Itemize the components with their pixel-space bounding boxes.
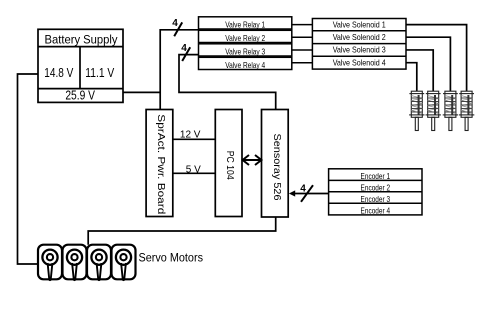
valve relay K2 <box>199 30 292 42</box>
double arrow PC104 to Sensoray <box>243 155 262 165</box>
svg-text:4: 4 <box>172 18 178 29</box>
wire 5V <box>173 172 216 174</box>
wire relay4 to solenoid4 <box>292 62 313 64</box>
svg-text:Encoder 3: Encoder 3 <box>361 194 391 204</box>
svg-text:Valve Solenoid 4: Valve Solenoid 4 <box>333 57 386 67</box>
wire solenoid4 to valve 1 <box>406 63 417 91</box>
svg-text:11.1 V: 11.1 V <box>85 66 114 80</box>
svg-text:4: 4 <box>300 183 306 194</box>
bus slash 2 <box>182 47 190 61</box>
encoder labels <box>361 171 391 216</box>
svg-text:Valve Relay 1: Valve Relay 1 <box>225 20 265 30</box>
wire Sensoray top to relays <box>179 55 276 110</box>
svg-text:PC 104: PC 104 <box>224 151 235 180</box>
svg-text:Sensoray 526: Sensoray 526 <box>271 134 283 201</box>
servo motor M1 <box>38 245 62 280</box>
wire vertical x=160 <box>160 30 198 110</box>
valve relay K4 <box>199 57 292 69</box>
wire solenoid1 to valve 4 <box>406 25 467 91</box>
wire Sensoray bottom to servo motors <box>88 217 276 245</box>
Sensoray 526 U3 <box>262 110 289 218</box>
wire battery-left to servo motors <box>18 74 39 264</box>
wire relay2 to solenoid2 <box>292 36 313 38</box>
battery supply PS1 <box>38 29 123 102</box>
bus slash 1 <box>174 22 182 36</box>
svg-text:Servo Motors: Servo Motors <box>139 251 204 265</box>
pneumatic valve V4 <box>459 91 474 130</box>
svg-text:Valve Solenoid 3: Valve Solenoid 3 <box>333 45 386 55</box>
wire solenoid3 to valve 2 <box>406 50 433 91</box>
bus slash encoder <box>301 185 313 202</box>
svg-text:Valve Relay 2: Valve Relay 2 <box>225 33 265 43</box>
svg-text:4: 4 <box>181 43 187 54</box>
wire solenoid2 to valve 3 <box>406 37 450 91</box>
servo motor M3 <box>87 245 111 280</box>
svg-text:Encoder 2: Encoder 2 <box>361 183 391 193</box>
encoder E1-E4 stack <box>329 169 422 215</box>
pneumatic valve V1 <box>409 91 424 130</box>
servo motor M4 <box>112 245 136 280</box>
PC 104 U2 <box>215 110 242 217</box>
pneumatic valve V3 <box>443 91 458 130</box>
wire battery 25.9V to relays and SprAct board <box>123 91 160 93</box>
SprAct power board U1 <box>146 110 173 217</box>
svg-text:25.9 V: 25.9 V <box>65 88 95 102</box>
wire relay3 to solenoid3 <box>292 49 313 51</box>
wire 12V <box>173 138 216 140</box>
svg-text:Valve Relay 3: Valve Relay 3 <box>225 47 265 57</box>
svg-text:Valve Solenoid 1: Valve Solenoid 1 <box>333 20 386 30</box>
svg-text:Valve Relay 4: Valve Relay 4 <box>225 60 265 70</box>
svg-text:Encoder 1: Encoder 1 <box>361 171 391 181</box>
svg-text:Valve Solenoid 2: Valve Solenoid 2 <box>333 32 386 42</box>
battery labels <box>44 32 118 102</box>
valve solenoid L1-L4 stack <box>312 19 406 70</box>
svg-text:SprAct. Pwr. Board: SprAct. Pwr. Board <box>155 114 167 214</box>
arrowhead into Sensoray <box>289 190 295 196</box>
svg-text:12 V: 12 V <box>180 129 201 140</box>
svg-text:Encoder 4: Encoder 4 <box>361 206 391 216</box>
pneumatic valve V2 <box>426 91 441 130</box>
svg-text:Battery Supply: Battery Supply <box>45 32 119 46</box>
servo motor M2 <box>63 245 87 280</box>
wire relay1 to solenoid1 <box>292 24 313 26</box>
svg-text:14.8 V: 14.8 V <box>44 66 73 80</box>
valve relay K3 <box>199 44 292 56</box>
svg-text:5 V: 5 V <box>186 164 201 175</box>
valve relay K1 <box>199 17 292 29</box>
wire encoders to Sensoray with arrow <box>291 193 329 195</box>
solenoid labels <box>333 20 386 68</box>
